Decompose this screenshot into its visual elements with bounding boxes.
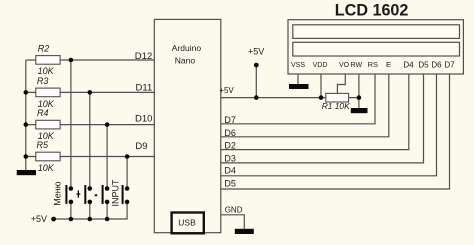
svg-text:GND: GND (225, 206, 243, 215)
svg-text:LCD 1602: LCD 1602 (335, 2, 409, 20)
svg-text:VSS: VSS (291, 62, 305, 69)
svg-text:D7: D7 (224, 115, 236, 125)
svg-text:R4: R4 (37, 108, 49, 118)
svg-text:RW: RW (351, 62, 363, 69)
svg-text:Nano: Nano (175, 55, 196, 65)
svg-text:VDD: VDD (313, 62, 328, 69)
svg-text:+5V: +5V (219, 86, 234, 95)
svg-text:R5: R5 (37, 140, 49, 150)
svg-text:R2: R2 (38, 43, 50, 53)
svg-text:D4: D4 (224, 166, 236, 176)
svg-text:INPUT: INPUT (110, 179, 120, 207)
svg-text:10K: 10K (38, 163, 55, 173)
svg-text:D11: D11 (136, 82, 153, 93)
svg-text:USB: USB (178, 217, 196, 227)
svg-text:D9: D9 (135, 141, 147, 152)
svg-text:D4: D4 (403, 60, 414, 69)
svg-text:D5: D5 (224, 178, 236, 188)
svg-text:D5: D5 (418, 60, 429, 69)
svg-text:VO: VO (339, 62, 350, 69)
svg-text:D10: D10 (135, 114, 152, 125)
svg-text:Меню: Меню (52, 181, 62, 206)
svg-text:+5V: +5V (31, 214, 47, 224)
svg-text:+5V: +5V (248, 47, 264, 57)
svg-text:E: E (386, 60, 391, 69)
svg-text:D7: D7 (444, 60, 455, 69)
svg-text:D3: D3 (224, 154, 236, 164)
svg-text:Arduino: Arduino (172, 43, 202, 53)
svg-text:R3: R3 (37, 76, 49, 86)
svg-text:D2: D2 (224, 141, 236, 151)
svg-text:D12: D12 (135, 51, 152, 62)
svg-text:D6: D6 (224, 128, 236, 138)
svg-text:RS: RS (368, 60, 378, 69)
svg-text:R1 10K: R1 10K (322, 101, 350, 111)
svg-text:10K: 10K (38, 66, 55, 76)
svg-text:D6: D6 (431, 60, 442, 69)
